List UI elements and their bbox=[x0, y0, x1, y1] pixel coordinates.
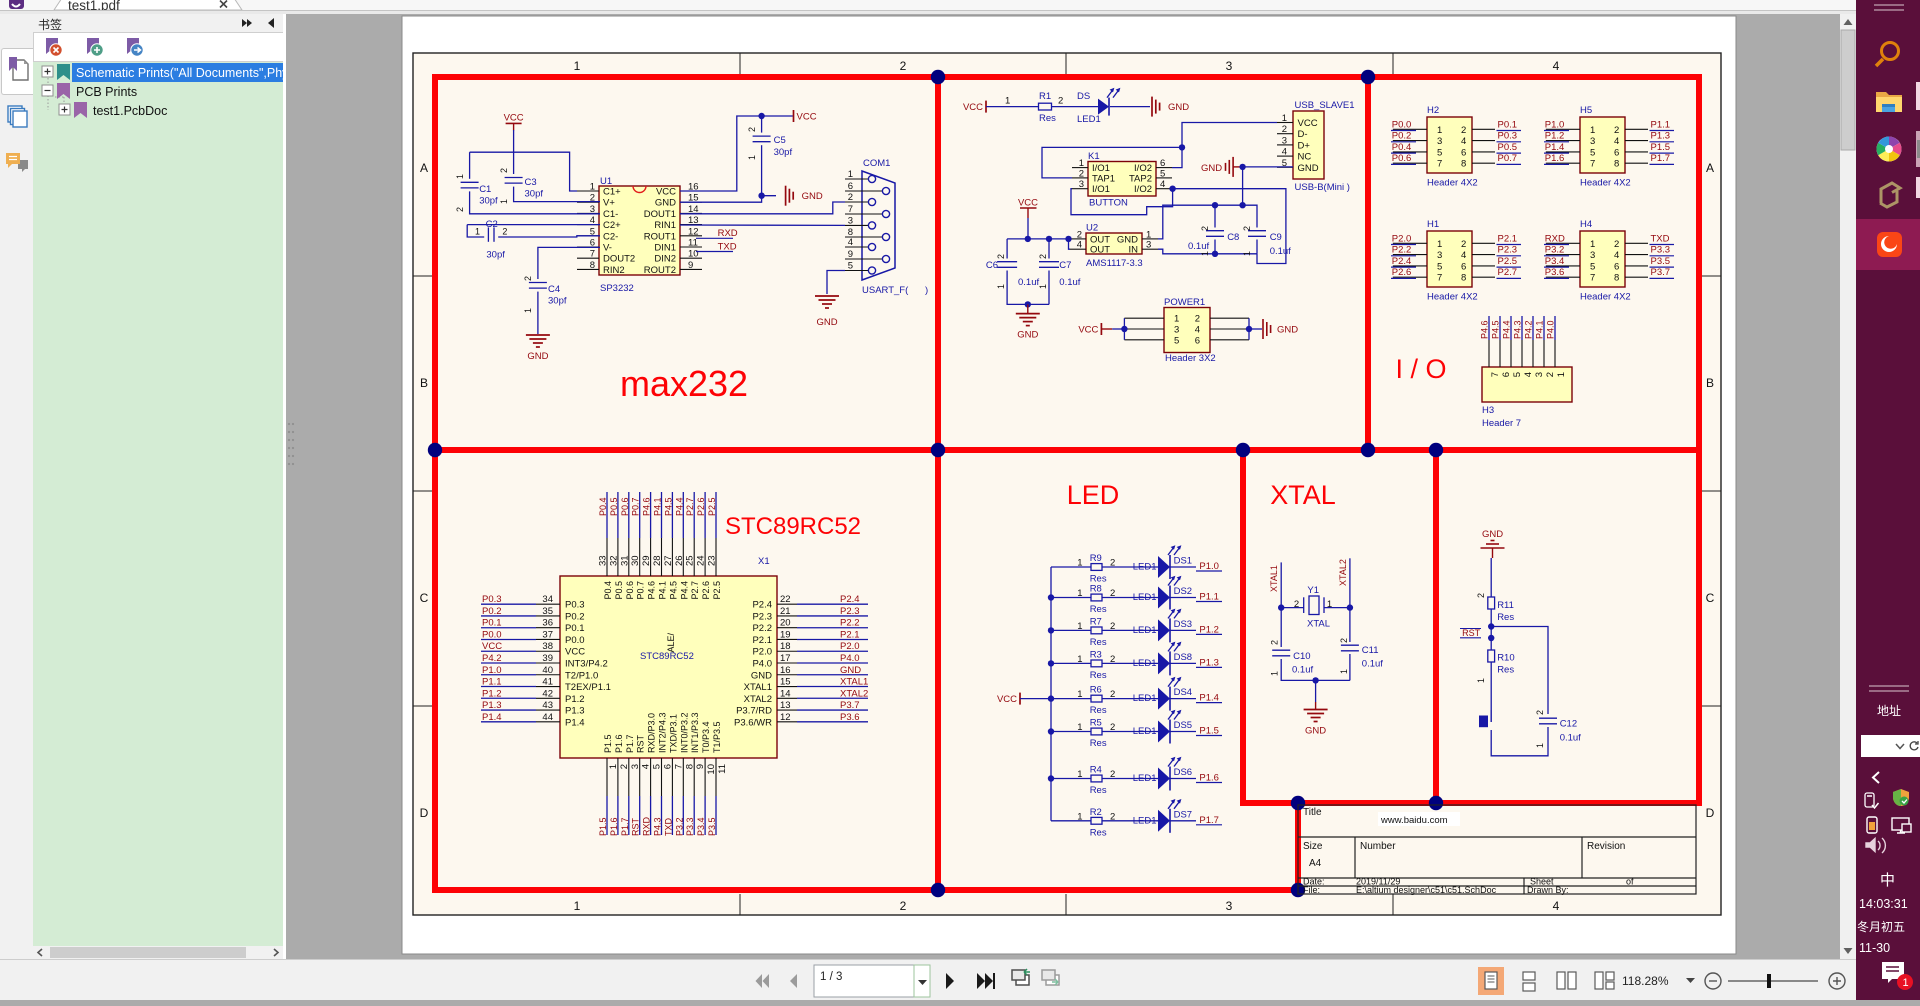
svg-text:VCC: VCC bbox=[656, 187, 676, 198]
svg-text:P0.4: P0.4 bbox=[1392, 142, 1412, 153]
svg-text:1: 1 bbox=[1437, 125, 1442, 136]
svg-text:P2.0: P2.0 bbox=[1392, 233, 1412, 244]
svg-text:14: 14 bbox=[780, 688, 791, 699]
svg-text:LED1: LED1 bbox=[1133, 815, 1157, 826]
svg-text:H3: H3 bbox=[1482, 405, 1494, 416]
svg-text:2: 2 bbox=[1461, 125, 1466, 136]
svg-text:P2.1: P2.1 bbox=[752, 635, 772, 646]
svg-text:NC: NC bbox=[1298, 152, 1312, 163]
svg-text:1: 1 bbox=[1077, 654, 1082, 665]
svg-text:P0.5: P0.5 bbox=[609, 497, 619, 516]
svg-text:GND: GND bbox=[527, 351, 548, 362]
svg-text:1: 1 bbox=[1077, 588, 1082, 599]
svg-text:9: 9 bbox=[848, 249, 853, 260]
svg-text:C9: C9 bbox=[1270, 232, 1282, 243]
svg-text:4: 4 bbox=[1282, 147, 1287, 158]
svg-text:P4.0: P4.0 bbox=[840, 653, 860, 664]
svg-text:2: 2 bbox=[1079, 168, 1084, 179]
svg-text:GND: GND bbox=[1017, 330, 1038, 341]
svg-text:DS6: DS6 bbox=[1174, 767, 1192, 778]
svg-text:P2.3: P2.3 bbox=[752, 611, 772, 622]
svg-text:地址: 地址 bbox=[1877, 704, 1901, 718]
svg-text:VCC: VCC bbox=[565, 647, 585, 658]
svg-text:P2.0: P2.0 bbox=[840, 641, 860, 652]
svg-text:2: 2 bbox=[1110, 811, 1115, 822]
svg-text:5: 5 bbox=[1590, 147, 1595, 158]
svg-text:P0.3: P0.3 bbox=[1498, 131, 1518, 142]
svg-text:C5: C5 bbox=[774, 135, 786, 146]
svg-text:1: 1 bbox=[1437, 239, 1442, 250]
svg-text:4: 4 bbox=[1614, 136, 1619, 147]
svg-text:A4: A4 bbox=[1309, 858, 1322, 869]
svg-text:LED1: LED1 bbox=[1133, 658, 1157, 669]
svg-text:P1.7: P1.7 bbox=[625, 734, 635, 753]
svg-text:1: 1 bbox=[1005, 96, 1010, 107]
svg-text:0.1uf: 0.1uf bbox=[1362, 659, 1383, 670]
svg-text:32: 32 bbox=[608, 555, 619, 566]
svg-text:3: 3 bbox=[848, 215, 853, 226]
svg-text:P0.7: P0.7 bbox=[636, 581, 646, 600]
svg-text:Revision: Revision bbox=[1587, 841, 1625, 852]
svg-text:P4.4: P4.4 bbox=[674, 497, 684, 516]
svg-text:35: 35 bbox=[542, 606, 553, 617]
svg-text:6: 6 bbox=[1461, 261, 1466, 272]
svg-text:37: 37 bbox=[542, 629, 553, 640]
svg-text:DOUT1: DOUT1 bbox=[644, 209, 676, 220]
svg-text:R7: R7 bbox=[1090, 616, 1102, 627]
svg-text:5: 5 bbox=[652, 764, 663, 769]
svg-text:VCC: VCC bbox=[997, 694, 1017, 705]
svg-text:C10: C10 bbox=[1293, 651, 1310, 662]
svg-text:P1.5: P1.5 bbox=[1199, 726, 1219, 737]
svg-text:LED1: LED1 bbox=[1133, 562, 1157, 573]
svg-text:2: 2 bbox=[1110, 588, 1115, 599]
svg-text:0.1uf: 0.1uf bbox=[1270, 246, 1291, 257]
svg-text:T2/P1.0: T2/P1.0 bbox=[565, 670, 598, 681]
svg-text:22: 22 bbox=[780, 594, 791, 605]
svg-text:2: 2 bbox=[848, 192, 853, 203]
svg-text:2: 2 bbox=[1339, 638, 1349, 643]
svg-text:C6: C6 bbox=[986, 260, 998, 271]
svg-text:B: B bbox=[1706, 376, 1714, 390]
svg-text:LED1: LED1 bbox=[1133, 693, 1157, 704]
svg-text:7: 7 bbox=[1490, 372, 1501, 377]
svg-text:P4.1: P4.1 bbox=[658, 581, 668, 600]
svg-text:3: 3 bbox=[1174, 325, 1179, 336]
svg-text:4: 4 bbox=[1195, 325, 1200, 336]
svg-text:43: 43 bbox=[542, 700, 553, 711]
svg-text:LED1: LED1 bbox=[1133, 773, 1157, 784]
svg-text:2: 2 bbox=[1294, 599, 1299, 610]
svg-text:20: 20 bbox=[780, 618, 791, 629]
svg-text:P0.4: P0.4 bbox=[603, 581, 613, 600]
svg-text:1: 1 bbox=[499, 199, 509, 204]
svg-text:Res: Res bbox=[1090, 827, 1107, 838]
svg-text:36: 36 bbox=[542, 618, 553, 629]
svg-text:P1.7: P1.7 bbox=[1651, 153, 1671, 164]
svg-text:P1.3: P1.3 bbox=[1651, 131, 1671, 142]
svg-text:OUT: OUT bbox=[1090, 245, 1110, 256]
svg-text:2: 2 bbox=[1058, 96, 1063, 107]
svg-text:P4.1: P4.1 bbox=[653, 497, 663, 516]
svg-text:Res: Res bbox=[1090, 738, 1107, 749]
svg-text:C12: C12 bbox=[1560, 719, 1577, 730]
svg-text:30pf: 30pf bbox=[486, 250, 505, 261]
svg-text:www.baidu.com: www.baidu.com bbox=[1380, 815, 1448, 826]
svg-text:7: 7 bbox=[1437, 273, 1442, 284]
svg-text:5: 5 bbox=[848, 261, 853, 272]
svg-text:P1.0: P1.0 bbox=[1545, 119, 1565, 130]
svg-text:P4.4: P4.4 bbox=[679, 581, 689, 600]
svg-text:3: 3 bbox=[1534, 372, 1545, 377]
svg-text:2: 2 bbox=[900, 59, 907, 73]
svg-text:P0.3: P0.3 bbox=[565, 600, 585, 611]
svg-text:12: 12 bbox=[688, 226, 699, 237]
svg-text:USB_SLAVE1: USB_SLAVE1 bbox=[1295, 100, 1355, 111]
svg-text:17: 17 bbox=[780, 653, 791, 664]
svg-text:P3.6: P3.6 bbox=[1545, 267, 1565, 278]
svg-text:X1: X1 bbox=[758, 556, 770, 567]
svg-text:5: 5 bbox=[1437, 261, 1442, 272]
svg-text:P1.5: P1.5 bbox=[603, 734, 613, 753]
svg-text:POWER1: POWER1 bbox=[1164, 297, 1205, 308]
svg-text:K1: K1 bbox=[1088, 151, 1100, 162]
svg-text:5: 5 bbox=[1174, 335, 1179, 346]
svg-text:P2.7: P2.7 bbox=[1498, 267, 1518, 278]
svg-text:A: A bbox=[420, 161, 428, 175]
svg-text:7: 7 bbox=[1590, 273, 1595, 284]
svg-text:P0.1: P0.1 bbox=[482, 618, 502, 629]
svg-text:LED: LED bbox=[1067, 480, 1120, 510]
svg-text:19: 19 bbox=[780, 629, 791, 640]
svg-text:P4.6: P4.6 bbox=[647, 581, 657, 600]
svg-text:42: 42 bbox=[542, 688, 553, 699]
svg-text:P1.3: P1.3 bbox=[1199, 657, 1219, 668]
svg-text:18: 18 bbox=[780, 641, 791, 652]
svg-text:GND: GND bbox=[751, 670, 772, 681]
svg-text:P4.3: P4.3 bbox=[1513, 320, 1523, 339]
svg-text:P2.7: P2.7 bbox=[685, 497, 695, 516]
svg-text:H5: H5 bbox=[1580, 105, 1592, 116]
svg-text:GND: GND bbox=[802, 191, 823, 202]
svg-text:2: 2 bbox=[1242, 226, 1252, 231]
svg-text:C3: C3 bbox=[525, 177, 537, 188]
svg-text:29: 29 bbox=[641, 555, 652, 566]
svg-text:1: 1 bbox=[1590, 239, 1595, 250]
svg-text:2: 2 bbox=[1110, 722, 1115, 733]
svg-text:1: 1 bbox=[996, 284, 1006, 289]
svg-text:1: 1 bbox=[848, 169, 853, 180]
svg-text:2: 2 bbox=[1545, 372, 1556, 377]
svg-text:P1.2: P1.2 bbox=[565, 694, 585, 705]
svg-text:P3.4: P3.4 bbox=[696, 817, 706, 836]
svg-text:P2.5: P2.5 bbox=[1498, 256, 1518, 267]
svg-text:DIN2: DIN2 bbox=[654, 254, 676, 265]
svg-text:30pf: 30pf bbox=[548, 296, 567, 307]
svg-text:I / O: I / O bbox=[1395, 354, 1446, 384]
svg-text:Number: Number bbox=[1360, 841, 1396, 852]
svg-text:8: 8 bbox=[684, 764, 695, 769]
svg-text:GND: GND bbox=[840, 665, 861, 676]
svg-text:3: 3 bbox=[1079, 179, 1084, 190]
svg-text:DS1: DS1 bbox=[1174, 556, 1192, 567]
svg-text:ALE/: ALE/ bbox=[666, 633, 676, 653]
svg-text:P3.3: P3.3 bbox=[1651, 245, 1671, 256]
svg-text:P3.6: P3.6 bbox=[840, 712, 860, 723]
svg-text:STC89RC52: STC89RC52 bbox=[725, 513, 861, 540]
svg-text:P4.5: P4.5 bbox=[663, 497, 673, 516]
svg-text:XTAL: XTAL bbox=[1307, 619, 1330, 630]
svg-text:GND: GND bbox=[1298, 163, 1319, 174]
svg-text:P0.2: P0.2 bbox=[482, 606, 502, 617]
svg-text:1: 1 bbox=[1282, 113, 1287, 124]
svg-text:P3.5: P3.5 bbox=[1651, 256, 1671, 267]
svg-text:C7: C7 bbox=[1059, 260, 1071, 271]
svg-text:P2.1: P2.1 bbox=[1498, 233, 1518, 244]
svg-text:5: 5 bbox=[1437, 147, 1442, 158]
svg-text:C1+: C1+ bbox=[603, 187, 621, 198]
svg-text:8: 8 bbox=[1461, 273, 1466, 284]
svg-text:8: 8 bbox=[1461, 159, 1466, 170]
svg-text:1: 1 bbox=[1903, 977, 1909, 989]
svg-text:1: 1 bbox=[1077, 811, 1082, 822]
svg-text:BUTTON: BUTTON bbox=[1089, 198, 1128, 209]
svg-text:P3.6/WR: P3.6/WR bbox=[734, 717, 772, 728]
svg-text:2: 2 bbox=[1476, 593, 1486, 598]
svg-text:1: 1 bbox=[1242, 251, 1252, 256]
svg-text:P0.7: P0.7 bbox=[1498, 153, 1518, 164]
svg-text:P2.1: P2.1 bbox=[840, 629, 860, 640]
svg-text:GND: GND bbox=[1277, 325, 1298, 336]
svg-text:P1.6: P1.6 bbox=[609, 817, 619, 836]
svg-text:P0.2: P0.2 bbox=[565, 611, 585, 622]
svg-text:6: 6 bbox=[848, 181, 853, 192]
svg-text:C: C bbox=[420, 591, 429, 605]
svg-text:COM1: COM1 bbox=[863, 158, 890, 169]
svg-text:11-30: 11-30 bbox=[1859, 941, 1890, 955]
svg-text:1 / 3: 1 / 3 bbox=[820, 971, 842, 983]
svg-text:P2.3: P2.3 bbox=[840, 606, 860, 617]
svg-text:P3.3: P3.3 bbox=[685, 817, 695, 836]
svg-text:P0.6: P0.6 bbox=[1392, 153, 1412, 164]
svg-text:3: 3 bbox=[630, 764, 641, 769]
svg-text:7: 7 bbox=[1590, 159, 1595, 170]
svg-text:USART_F(: USART_F( bbox=[862, 285, 909, 296]
svg-text:D: D bbox=[420, 806, 429, 820]
svg-text:0.1uf: 0.1uf bbox=[1059, 277, 1080, 288]
svg-text:C2-: C2- bbox=[603, 231, 618, 242]
svg-text:4: 4 bbox=[1160, 179, 1165, 190]
svg-text:9: 9 bbox=[688, 260, 693, 271]
svg-text:2: 2 bbox=[747, 127, 757, 132]
svg-text:4: 4 bbox=[1523, 372, 1534, 377]
svg-text:TXD/P3.1: TXD/P3.1 bbox=[668, 714, 678, 753]
svg-text:LED1: LED1 bbox=[1133, 726, 1157, 737]
svg-text:H1: H1 bbox=[1427, 219, 1439, 230]
svg-text:DS2: DS2 bbox=[1174, 586, 1192, 597]
svg-text:4: 4 bbox=[1461, 250, 1466, 261]
svg-text:2: 2 bbox=[1110, 558, 1115, 569]
svg-text:C4: C4 bbox=[548, 284, 560, 295]
svg-text:4: 4 bbox=[1553, 59, 1560, 73]
svg-text:6: 6 bbox=[1614, 261, 1619, 272]
svg-text:23: 23 bbox=[707, 555, 718, 566]
svg-text:XTAL1: XTAL1 bbox=[1269, 565, 1279, 592]
svg-text:2: 2 bbox=[523, 276, 533, 281]
svg-text:I/O1: I/O1 bbox=[1092, 184, 1110, 195]
svg-text:P1.3: P1.3 bbox=[565, 706, 585, 717]
svg-text:30: 30 bbox=[630, 555, 641, 566]
svg-text:11: 11 bbox=[717, 764, 728, 774]
svg-text:P1.6: P1.6 bbox=[1199, 773, 1219, 784]
svg-text:24: 24 bbox=[696, 555, 707, 566]
svg-text:P4.5: P4.5 bbox=[1491, 320, 1501, 339]
svg-text:Res: Res bbox=[1497, 612, 1514, 623]
svg-text:P1.3: P1.3 bbox=[482, 700, 502, 711]
svg-text:P3.7/RD: P3.7/RD bbox=[736, 706, 772, 717]
svg-text:Res: Res bbox=[1090, 670, 1107, 681]
svg-text:R10: R10 bbox=[1497, 653, 1514, 664]
svg-text:P4.0: P4.0 bbox=[1546, 320, 1556, 339]
svg-text:2: 2 bbox=[900, 899, 907, 913]
svg-text:6: 6 bbox=[1461, 147, 1466, 158]
svg-text:RIN1: RIN1 bbox=[654, 220, 676, 231]
svg-text:1: 1 bbox=[1077, 769, 1082, 780]
svg-text:P1.7: P1.7 bbox=[1199, 815, 1219, 826]
svg-text:XTAL2: XTAL2 bbox=[840, 688, 868, 699]
svg-text:1: 1 bbox=[455, 174, 465, 179]
svg-text:12: 12 bbox=[780, 712, 791, 723]
svg-text:P2.2: P2.2 bbox=[1392, 245, 1412, 256]
svg-text:VCC: VCC bbox=[797, 112, 817, 123]
svg-text:DIN1: DIN1 bbox=[654, 243, 676, 254]
svg-text:1: 1 bbox=[1535, 743, 1545, 748]
svg-text:H2: H2 bbox=[1427, 105, 1439, 116]
svg-text:1: 1 bbox=[590, 182, 595, 193]
svg-text:2: 2 bbox=[996, 254, 1006, 259]
svg-text:U1: U1 bbox=[600, 176, 612, 187]
svg-text:C1-: C1- bbox=[603, 209, 618, 220]
svg-text:13: 13 bbox=[780, 700, 791, 711]
svg-text:P2.7: P2.7 bbox=[690, 581, 700, 600]
svg-text:P2.5: P2.5 bbox=[712, 581, 722, 600]
svg-text:VCC: VCC bbox=[504, 112, 524, 123]
svg-text:31: 31 bbox=[619, 555, 630, 566]
svg-text:28: 28 bbox=[652, 555, 663, 566]
svg-text:1: 1 bbox=[1590, 125, 1595, 136]
svg-text:4: 4 bbox=[1553, 899, 1560, 913]
svg-text:DS4: DS4 bbox=[1174, 687, 1192, 698]
svg-text:8: 8 bbox=[590, 260, 595, 271]
svg-text:GND: GND bbox=[1168, 102, 1189, 113]
svg-text:1: 1 bbox=[574, 899, 581, 913]
svg-text:Size: Size bbox=[1303, 841, 1323, 852]
svg-text:AMS1117-3.3: AMS1117-3.3 bbox=[1086, 258, 1143, 269]
svg-text:P2.6: P2.6 bbox=[696, 497, 706, 516]
svg-text:2: 2 bbox=[502, 227, 507, 237]
svg-text:8: 8 bbox=[1614, 159, 1619, 170]
svg-text:B: B bbox=[420, 376, 428, 390]
svg-text:P2.6: P2.6 bbox=[701, 581, 711, 600]
svg-text:R9: R9 bbox=[1090, 553, 1102, 564]
svg-text:T1/P3.5: T1/P3.5 bbox=[712, 721, 722, 753]
svg-text:0.1uf: 0.1uf bbox=[1018, 277, 1039, 288]
svg-text:D-: D- bbox=[1298, 129, 1308, 140]
svg-text:C1: C1 bbox=[479, 184, 491, 195]
svg-text:7: 7 bbox=[848, 204, 853, 215]
svg-text:P2.2: P2.2 bbox=[840, 618, 860, 629]
svg-text:P0.4: P0.4 bbox=[598, 497, 608, 516]
svg-text:6: 6 bbox=[1501, 372, 1512, 377]
svg-text:DS: DS bbox=[1077, 91, 1090, 102]
svg-text:P3.4: P3.4 bbox=[1545, 256, 1565, 267]
svg-text:Header 4X2: Header 4X2 bbox=[1580, 178, 1631, 189]
svg-text:R1: R1 bbox=[1039, 91, 1051, 102]
svg-text:P3.2: P3.2 bbox=[674, 817, 684, 836]
svg-text:max232: max232 bbox=[620, 363, 748, 404]
svg-text:RST: RST bbox=[631, 817, 641, 836]
svg-text:D+: D+ bbox=[1298, 140, 1311, 151]
svg-text:Res: Res bbox=[1090, 705, 1107, 716]
svg-text:P2.5: P2.5 bbox=[707, 497, 717, 516]
svg-text:3: 3 bbox=[1146, 240, 1151, 251]
svg-text:P0.1: P0.1 bbox=[565, 623, 585, 634]
svg-text:34: 34 bbox=[542, 594, 553, 605]
svg-text:DS7: DS7 bbox=[1174, 809, 1192, 820]
svg-text:2: 2 bbox=[1110, 621, 1115, 632]
svg-text:3: 3 bbox=[1282, 135, 1287, 146]
svg-text:3: 3 bbox=[1590, 136, 1595, 147]
svg-text:D: D bbox=[1706, 806, 1715, 820]
svg-text:11: 11 bbox=[688, 238, 698, 249]
svg-text:P1.2: P1.2 bbox=[1545, 131, 1565, 142]
svg-text:LED1: LED1 bbox=[1133, 625, 1157, 636]
svg-text:Header 4X2: Header 4X2 bbox=[1427, 178, 1478, 189]
svg-text:LED1: LED1 bbox=[1077, 114, 1101, 125]
svg-text:6: 6 bbox=[1614, 147, 1619, 158]
svg-text:P1.7: P1.7 bbox=[620, 817, 630, 836]
svg-text:40: 40 bbox=[542, 665, 553, 676]
svg-text:T2EX/P1.1: T2EX/P1.1 bbox=[565, 682, 611, 693]
svg-text:P1.4: P1.4 bbox=[482, 712, 502, 723]
svg-text:P2.6: P2.6 bbox=[1392, 267, 1412, 278]
svg-text:Header 4X2: Header 4X2 bbox=[1427, 292, 1478, 303]
svg-text:SP3232: SP3232 bbox=[600, 283, 634, 294]
svg-text:2: 2 bbox=[499, 168, 509, 173]
svg-text:2: 2 bbox=[1614, 125, 1619, 136]
svg-text:1: 1 bbox=[1327, 599, 1332, 610]
svg-text:P0.2: P0.2 bbox=[1392, 131, 1412, 142]
svg-text:C2+: C2+ bbox=[603, 220, 621, 231]
svg-text:V+: V+ bbox=[603, 198, 615, 209]
svg-text:2: 2 bbox=[455, 207, 465, 212]
svg-text:P4.5: P4.5 bbox=[668, 581, 678, 600]
svg-text:P4.2: P4.2 bbox=[482, 653, 502, 664]
svg-text:P2.3: P2.3 bbox=[1498, 245, 1518, 256]
svg-text:21: 21 bbox=[780, 606, 791, 617]
svg-text:P0.0: P0.0 bbox=[1392, 119, 1412, 130]
svg-text:P1.0: P1.0 bbox=[482, 665, 502, 676]
svg-text:1: 1 bbox=[1077, 558, 1082, 569]
svg-text:P4.6: P4.6 bbox=[642, 497, 652, 516]
svg-text:I/O2: I/O2 bbox=[1134, 184, 1152, 195]
svg-text:33: 33 bbox=[598, 555, 609, 566]
svg-text:4: 4 bbox=[1614, 250, 1619, 261]
svg-text:P2.4: P2.4 bbox=[752, 600, 772, 611]
svg-text:2: 2 bbox=[1110, 689, 1115, 700]
svg-text:TXD: TXD bbox=[718, 241, 737, 252]
svg-text:GND: GND bbox=[655, 198, 676, 209]
